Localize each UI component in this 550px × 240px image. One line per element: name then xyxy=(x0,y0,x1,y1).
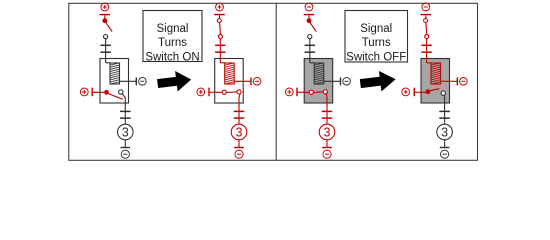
wire K1 (before, relay de-energized) to motor xyxy=(124,103,126,124)
relay contact K1 (after, relay energized) closed blade xyxy=(226,91,237,94)
battery terminal B+ K1 (after, relay energized) top xyxy=(216,3,224,11)
connector bar K2 (before, relay de-energized) contact xyxy=(296,88,298,97)
relay contact K1 (before, relay de-energized) node xyxy=(119,90,123,94)
svg-text:3: 3 xyxy=(236,126,243,140)
panel frame (outer border) xyxy=(69,3,478,160)
wire K1 (before, relay de-energized) motor to ground xyxy=(124,139,126,147)
connector ticks K2 (before, relay de-energized) signal wire xyxy=(305,44,315,46)
wire K2 (before, relay de-energized) coil to ground xyxy=(323,80,340,82)
ground terminal K2 (after, relay energized) motor xyxy=(441,150,449,158)
ground terminal K1 (after, relay energized) motor xyxy=(235,150,243,158)
connector bar K2 (after, relay energized) contact xyxy=(413,88,415,97)
wire K2 (before, relay de-energized) contact feed xyxy=(297,91,310,93)
svg-text:Turns: Turns xyxy=(362,37,391,49)
ground bar K1 (before, relay de-energized) motor xyxy=(121,147,131,149)
svg-text:Switch OFF: Switch OFF xyxy=(346,51,406,63)
connector bar K2 (before, relay de-energized) coil ground xyxy=(340,77,342,85)
wire K1 (before, relay de-energized) contact node down xyxy=(122,94,125,103)
ground bar K1 (after, relay energized) motor xyxy=(234,147,244,149)
wire K1 (before, relay de-energized) coil entry xyxy=(106,62,110,64)
connector bar K2 (before, relay de-energized) top xyxy=(304,14,315,16)
connector bar K1 (after, relay energized) contact xyxy=(208,88,210,97)
connector bar K1 (before, relay de-energized) contact xyxy=(91,88,93,97)
relay box K2 (before, relay de-energized) xyxy=(304,59,333,104)
relay coil K2 (after, relay energized) xyxy=(431,63,441,84)
svg-text:3: 3 xyxy=(324,126,331,140)
wire K1 (after, relay energized) coil entry xyxy=(220,62,224,64)
ground bar K2 (before, relay de-energized) motor xyxy=(322,147,332,149)
relay coil K1 (after, relay energized) xyxy=(225,63,235,84)
transition arrow panel 1 xyxy=(156,69,192,94)
signal switch K2 (before, relay de-energized) open blade xyxy=(310,22,317,31)
connector ticks K2 (after, relay energized) signal wire xyxy=(421,44,431,46)
caption box: Signal Turns Switch OFF xyxy=(345,11,408,63)
wire K2 (before, relay de-energized) coil entry xyxy=(310,62,314,64)
battery terminal B+ K1 (before, relay de-energized) top xyxy=(101,3,109,11)
connector bar K2 (after, relay energized) top xyxy=(421,14,432,16)
connector bar K1 (before, relay de-energized) coil ground xyxy=(135,77,137,85)
svg-text:3: 3 xyxy=(122,126,129,140)
wire K2 (before, relay de-energized) contact node down xyxy=(325,94,328,103)
signal switch K2 (before, relay de-energized) node xyxy=(308,35,312,39)
wire K2 (after, relay energized) coil to ground xyxy=(440,80,457,82)
relay contact K1 (before, relay de-energized) pivot (open) xyxy=(105,90,109,94)
wire K1 (before, relay de-energized) switch node to relay coil xyxy=(105,39,107,63)
signal switch K2 (after, relay energized) closed blade xyxy=(425,23,428,35)
signal switch K1 (before, relay de-energized) open blade xyxy=(106,22,113,31)
ground bar K2 (after, relay energized) motor xyxy=(440,147,450,149)
battery terminal B+ K1 (before, relay de-energized) contact xyxy=(80,88,88,96)
relay box K1 (before, relay de-energized) xyxy=(100,59,129,104)
connector ticks K1 (before, relay de-energized) motor wire xyxy=(120,110,131,112)
wire K1 (before, relay de-energized) top terminal to switch xyxy=(104,15,106,19)
wire K2 (before, relay de-energized) switch node to relay coil xyxy=(309,39,311,63)
wire K2 (after, relay energized) to motor xyxy=(444,103,446,124)
wire K1 (after, relay energized) top terminal to switch xyxy=(219,15,221,19)
relay contact K2 (before, relay de-energized) closed blade xyxy=(313,91,323,94)
relay coil K2 (before, relay de-energized) xyxy=(314,63,324,84)
svg-text:Switch ON: Switch ON xyxy=(145,51,199,63)
connector ticks K1 (after, relay energized) signal wire xyxy=(215,44,225,46)
signal switch K1 (before, relay de-energized) (open) pivot xyxy=(103,19,107,23)
svg-text:Signal: Signal xyxy=(360,23,392,35)
ground terminal K1 (after, relay energized) coil xyxy=(253,78,261,86)
connector ticks K1 (after, relay energized) motor wire xyxy=(234,110,245,112)
wire K1 (after, relay energized) contact feed xyxy=(209,91,222,93)
wire K2 (before, relay de-energized) motor to ground xyxy=(326,139,328,147)
ground terminal K1 (before, relay de-energized) motor xyxy=(121,150,129,158)
wire K1 (after, relay energized) coil to ground xyxy=(234,80,251,82)
svg-text:Signal: Signal xyxy=(157,23,189,35)
caption box: Signal Turns Switch ON xyxy=(143,11,202,62)
relay contact K1 (after, relay energized) pivot (closed) xyxy=(222,90,226,94)
connector bar K1 (after, relay energized) coil ground xyxy=(250,77,252,85)
signal switch K1 (before, relay de-energized) node xyxy=(104,35,108,39)
signal switch K2 (after, relay energized) node xyxy=(425,35,429,39)
relay contact K1 (before, relay de-energized) open blade xyxy=(107,93,123,99)
svg-text:Turns: Turns xyxy=(158,37,187,49)
relay contact K2 (after, relay energized) node xyxy=(441,91,445,95)
battery terminal B+ K2 (before, relay de-energized) top xyxy=(305,3,313,11)
relay contact K2 (after, relay energized) open blade xyxy=(429,89,439,91)
wire K1 (before, relay de-energized) contact feed xyxy=(92,91,105,93)
signal switch K1 (after, relay energized) node xyxy=(218,35,222,39)
battery terminal B+ K2 (after, relay energized) top xyxy=(422,3,430,11)
wire K2 (after, relay energized) coil entry xyxy=(427,62,431,64)
ground terminal K2 (after, relay energized) coil xyxy=(460,78,468,86)
wire K2 (after, relay energized) motor to ground xyxy=(444,139,446,147)
wire K2 (before, relay de-energized) top terminal to switch xyxy=(308,15,310,19)
motor M K1 (before, relay de-energized) xyxy=(118,124,134,140)
battery terminal B+ K1 (after, relay energized) contact xyxy=(197,88,205,96)
wire K1 (before, relay de-energized) coil to ground xyxy=(119,80,136,82)
motor M K2 (before, relay de-energized) xyxy=(319,124,335,140)
signal switch K1 (after, relay energized) (closed) pivot xyxy=(217,19,221,23)
signal switch K2 (after, relay energized) (closed) pivot xyxy=(424,19,428,23)
relay coil K1 (before, relay de-energized) xyxy=(110,63,120,84)
signal switch K1 (after, relay energized) closed blade xyxy=(219,23,222,35)
connector ticks K2 (before, relay de-energized) motor wire xyxy=(322,110,333,112)
relay contact K1 (after, relay energized) node xyxy=(237,90,241,94)
ground terminal K2 (before, relay de-energized) coil xyxy=(343,78,351,86)
motor M K1 (after, relay energized) xyxy=(231,124,247,140)
relay contact K2 (before, relay de-energized) pivot (closed) xyxy=(309,90,313,94)
relay contact K2 (before, relay de-energized) node xyxy=(323,90,327,94)
motor M K2 (after, relay energized) xyxy=(437,124,453,140)
wire K2 (after, relay energized) top terminal to switch xyxy=(425,15,427,19)
relay box K1 (after, relay energized) xyxy=(215,59,244,104)
connector bar K1 (after, relay energized) top xyxy=(214,14,225,16)
battery terminal B+ K2 (before, relay de-energized) contact xyxy=(285,88,293,96)
transition arrow panel 2 xyxy=(359,69,397,94)
connector bar K2 (after, relay energized) coil ground xyxy=(456,77,458,85)
wire K1 (after, relay energized) to motor xyxy=(238,103,240,124)
wire K2 (after, relay energized) contact feed xyxy=(414,91,426,93)
battery terminal B+ K2 (after, relay energized) contact xyxy=(402,88,410,96)
wire K2 (after, relay energized) switch node to relay coil xyxy=(426,39,428,63)
relay box K2 (after, relay energized) xyxy=(421,59,450,104)
wire K1 (after, relay energized) contact node down xyxy=(239,94,240,103)
wire K1 (after, relay energized) motor to ground xyxy=(238,139,240,147)
connector ticks K1 (before, relay de-energized) signal wire xyxy=(100,44,110,46)
svg-text:3: 3 xyxy=(441,126,448,140)
connector bar K1 (before, relay de-energized) top xyxy=(100,14,111,16)
relay contact K2 (after, relay energized) pivot (open) xyxy=(426,90,430,94)
wire K1 (after, relay energized) switch node to relay coil xyxy=(219,39,221,63)
ground terminal K2 (before, relay de-energized) motor xyxy=(323,150,331,158)
connector ticks K2 (after, relay energized) motor wire xyxy=(439,110,450,112)
signal switch K2 (before, relay de-energized) (open) pivot xyxy=(307,19,311,23)
wire K2 (after, relay energized) contact node down xyxy=(444,95,446,103)
ground terminal K1 (before, relay de-energized) coil xyxy=(139,78,147,86)
wire K2 (before, relay de-energized) to motor xyxy=(326,103,328,124)
panel divider xyxy=(275,3,277,160)
